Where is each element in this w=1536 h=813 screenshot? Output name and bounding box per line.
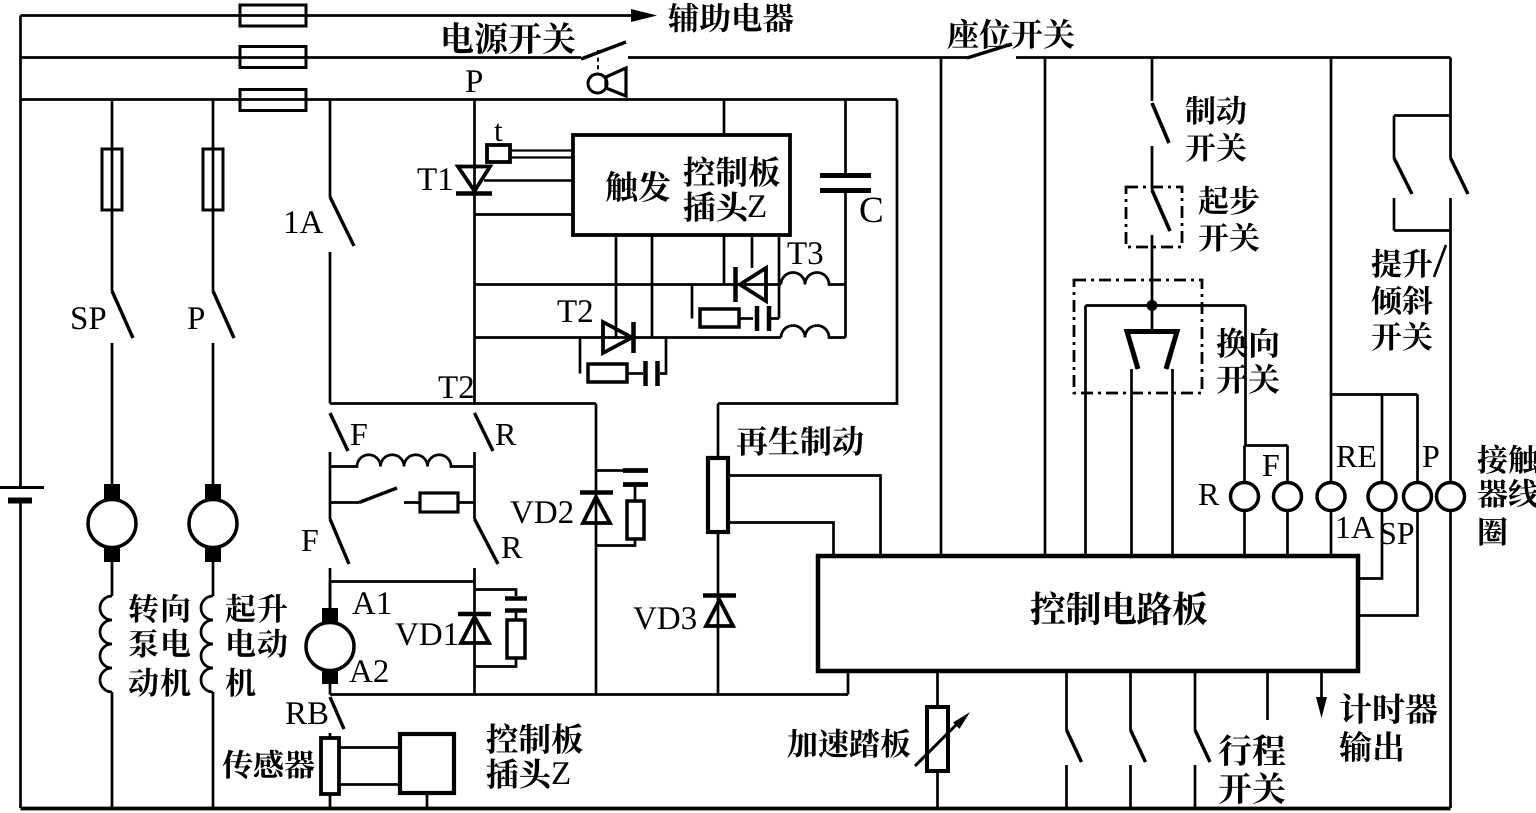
switch: travel switch 2 <box>1129 671 1132 808</box>
terminal: hoist motor bottom brush <box>206 548 220 561</box>
wire direction bus (y=305) <box>1086 306 1246 557</box>
label RE (coil) <box>1337 446 1375 467</box>
label 制动开关 (brake switch) <box>1186 96 1246 125</box>
label F (coil) <box>1263 455 1279 476</box>
label 传感器 (sensor) <box>223 750 315 779</box>
wire bus 3 (main positive rail, y=99) <box>21 98 898 101</box>
label 插头Z (plug Z) <box>684 191 747 222</box>
label F (upper) <box>351 424 367 445</box>
wire direction outputs <box>1132 369 1173 556</box>
label 1A <box>286 211 323 233</box>
thyristor T1 triangle <box>458 167 490 192</box>
contactor coil RE <box>1317 483 1345 511</box>
wire bus 1 (auxiliary feed, y=15) <box>21 14 633 17</box>
motor M2 hoist motor <box>189 500 237 548</box>
contactor coil R <box>1231 483 1259 511</box>
wire right frame (x=1450) <box>1449 58 1452 809</box>
wire P column (x=213) <box>212 100 215 809</box>
inductor commutation choke lower <box>781 326 846 338</box>
wire coil 1A to board edge <box>1358 511 1382 579</box>
snubber T2: left bracket <box>579 338 582 374</box>
switch SP contact arm <box>112 291 133 338</box>
label 1A (coil) <box>1338 517 1374 538</box>
wire seat feed 1 (x=941) <box>940 58 943 557</box>
snubber T2: resistor <box>588 364 627 382</box>
fuse FU4 on SP column <box>102 149 122 210</box>
wire T1 column (x=474, from bus3) <box>473 100 476 404</box>
arrow of potentiometer <box>915 724 957 766</box>
label T2 (left node) <box>439 376 473 398</box>
diode VD3 cathode bar <box>703 593 736 598</box>
switch RB contact arm <box>330 697 344 729</box>
fuse FU3 on bus 3 <box>240 90 306 111</box>
horn bell symbol <box>606 68 626 96</box>
contactor coil SP <box>1404 483 1432 511</box>
wire trigger board outputs <box>616 235 779 338</box>
label C <box>861 197 882 222</box>
label 计时器输出 (timer output) <box>1340 693 1437 724</box>
capacitor plates of VD1 snubber <box>505 599 527 611</box>
wire VD1 column (x=474) <box>473 582 476 695</box>
label T1 <box>418 168 452 190</box>
switch: brake switch arm <box>1152 103 1169 143</box>
control circuit board box <box>818 556 1358 671</box>
label VD3 <box>633 607 696 629</box>
terminal: hoist motor top brush <box>206 485 220 498</box>
switch: start switch arm <box>1152 190 1170 231</box>
wire bus3 corner down (x=897) <box>718 100 897 404</box>
label P (coil) <box>1423 446 1439 467</box>
label 接触器线圈 (contactor coils) <box>1478 445 1536 474</box>
wire left frame (battery column) <box>19 16 22 809</box>
diode VD1 triangle <box>461 617 489 643</box>
wire bridge top rail (y=403) <box>330 402 596 405</box>
label 控制电路板 (control circuit board) <box>1031 591 1208 625</box>
start switch dash-dot box <box>1126 187 1182 247</box>
wire link to trigger board (y=214) <box>475 213 574 216</box>
motor M1 steering pump motor <box>88 500 136 548</box>
thermal sensor t box <box>487 145 510 162</box>
resistor in bypass row <box>420 493 458 512</box>
label VD2 <box>510 501 572 523</box>
switch 1A contact arm <box>330 197 354 246</box>
inductor T3 commutation choke upper <box>781 273 846 285</box>
switch R lower contact arm <box>475 519 499 564</box>
wire capacitor C column (x=845) <box>844 100 847 338</box>
label 加速踏板 (accelerator pedal) <box>787 729 910 758</box>
label 再生制动 (regenerative braking) <box>737 426 863 456</box>
label 控制板 (control board) <box>684 156 780 187</box>
label SP (pump contactor) <box>72 307 105 329</box>
resistor RB regen braking <box>708 458 728 532</box>
terminal: armature A1 brush <box>323 609 337 622</box>
label R (coil) <box>1199 484 1219 505</box>
field coil of hoist motor <box>201 596 213 692</box>
label 控制板插头Z (control board plug Z, lower) <box>487 723 583 754</box>
switch: bypass contact arm <box>359 488 397 503</box>
label 换向开关 (direction switch) <box>1217 327 1279 357</box>
label 触发 (trigger) <box>606 171 670 202</box>
wire accelerator column <box>936 671 939 808</box>
field coil of pump motor <box>100 596 112 692</box>
contactor coil F <box>1274 483 1302 511</box>
label R (upper) <box>496 424 516 445</box>
switch: seat switch arm <box>967 44 1012 58</box>
label T2 (upper) <box>558 300 592 322</box>
wire sensor box to frame <box>426 793 429 808</box>
wire brake switch column (x=1152) <box>1151 58 1154 331</box>
thyristor T2 triangle <box>603 322 632 353</box>
diode VD2 cathode bar <box>580 490 613 495</box>
wire sensor links <box>339 748 400 785</box>
potentiometer accelerator pedal <box>927 707 948 771</box>
wire armature top rail (y=581) <box>330 580 475 583</box>
label 转向泵电动机 (steering pump motor) <box>129 594 190 623</box>
diode VD1 cathode bar <box>458 612 491 617</box>
wire VD1 snubber bottom bracket <box>475 658 517 667</box>
switch: power switch arm <box>581 42 626 59</box>
fuse FU1 on bus 1 <box>240 5 306 26</box>
thyristor T2 cathode bar <box>631 322 636 353</box>
wire commutation row 1 (y=284) <box>475 283 782 286</box>
label t (thermal sensor) <box>494 124 502 142</box>
snubber VD2: resistor <box>627 501 644 539</box>
label 辅助电器 (auxiliary devices) <box>668 3 793 33</box>
inductor: armature choke <box>330 455 475 467</box>
switch P contact arm <box>213 291 234 338</box>
wire RE/coil feed column (x=1331) <box>1330 58 1333 483</box>
wire coil SP to board edge <box>1358 511 1418 616</box>
capacitor C plates <box>820 176 871 191</box>
contactor coil P2 <box>1437 483 1465 511</box>
wire seat feed 2 (x=1045) <box>1044 58 1047 557</box>
label 座位开关 (seat switch) <box>948 19 1074 49</box>
trigger board box 触发/控制板插头Z <box>573 135 790 235</box>
wire F branch vertical <box>329 452 332 609</box>
label 提升/倾斜开关 (lift/tilt switch) <box>1372 249 1433 278</box>
switch F lower contact arm <box>330 519 349 564</box>
switch: tilt switch arm <box>1451 158 1469 194</box>
sensor box <box>400 734 454 793</box>
label F (lower) <box>302 530 318 551</box>
sensor shunt resistor <box>321 738 339 794</box>
label SP (coil) <box>1381 523 1413 544</box>
label VD1 <box>395 623 457 645</box>
resistor of VD1 snubber <box>507 620 525 658</box>
label 起升电动机 (hoist motor) <box>226 594 288 623</box>
direction switch dash-dot box <box>1074 280 1202 393</box>
dashed link of power switch to horn <box>597 50 599 73</box>
diode VD3 triangle <box>706 600 733 626</box>
terminal: pump motor bottom brush <box>105 548 119 561</box>
motor M3 traction armature <box>306 623 354 671</box>
wire R-F coil bracket <box>1245 446 1288 483</box>
switch R upper contact arm <box>475 413 494 451</box>
wire VD1 snubber top bracket <box>475 590 517 597</box>
battery GB short plate <box>8 498 32 504</box>
label P (top rail) <box>466 70 482 92</box>
switch: lift switch arm <box>1394 158 1412 194</box>
terminal: pump motor top brush <box>105 485 119 498</box>
contactor coil 1A <box>1368 483 1396 511</box>
wire double link t to board <box>510 151 573 158</box>
wire T1 gate to trigger board <box>484 179 573 181</box>
thyristor T1 cathode bar <box>456 191 492 196</box>
wire VD2 column (x=596) <box>595 404 598 695</box>
snubber VD2: top bracket and capacitor <box>596 469 635 472</box>
wire regen tap upper <box>728 476 881 557</box>
wire R branch vertical (x=474) <box>473 452 476 582</box>
wire bottom rail (y=694) <box>330 671 848 695</box>
wire bus 2 (key-switch line, y=57) <box>21 56 1451 59</box>
wire regen tap lower <box>728 523 834 557</box>
snubber VD2: bottom bracket <box>596 539 635 546</box>
wire coil bracket (y=394) <box>1331 395 1418 483</box>
thyristor T3 cathode bar <box>733 267 738 302</box>
snubber T3: left bracket <box>691 285 694 319</box>
wire SP column (x=112) <box>111 100 114 809</box>
switch: travel switch 3 <box>1194 671 1197 808</box>
wire VD1 snubber mid stub <box>515 612 518 620</box>
label R (lower) <box>502 537 522 558</box>
wire RB to sensor <box>329 733 332 808</box>
snubber T3: resistor <box>700 309 739 327</box>
label A1 terminal <box>352 592 390 614</box>
snubber T2: link and capacitor <box>627 372 643 375</box>
arrowhead to auxiliary devices <box>631 9 657 22</box>
label 行程开关 (travel switch) <box>1219 734 1286 766</box>
switch: travel switch 1 <box>1065 671 1068 808</box>
wire bypass row (y=502) <box>330 501 475 504</box>
terminal: armature A2 brush <box>323 670 337 683</box>
battery GB long plate <box>0 486 44 489</box>
label T3 <box>788 242 823 264</box>
switch: direction selector wiper <box>1127 332 1177 370</box>
wire regen column (x=718) <box>717 404 720 695</box>
wire armature stub <box>329 582 332 695</box>
label A2 terminal <box>349 660 387 682</box>
wire 1A column (x=330) <box>329 100 332 404</box>
label 电源开关 (power switch) <box>444 22 575 54</box>
fuse FU2 on bus 2 <box>240 47 306 68</box>
diode VD2 triangle <box>583 497 610 523</box>
wire timer output with arrow <box>1320 671 1323 699</box>
label RB <box>286 702 327 724</box>
label P (hoist contactor) <box>188 307 204 329</box>
wire coils to board <box>1245 511 1332 557</box>
fuse FU5 on P column <box>203 149 223 210</box>
thyristor T3 triangle <box>740 268 766 301</box>
wire lift/tilt branch bracket <box>1394 116 1451 231</box>
switch F upper contact arm <box>330 413 348 451</box>
snubber T3: link and capacitor <box>739 317 753 320</box>
wire bus3 to trigger board top <box>723 100 726 136</box>
label 起步开关 (start switch) <box>1199 186 1259 215</box>
wire bottom frame (negative rail) <box>21 807 1451 811</box>
node junction dot <box>1147 300 1158 311</box>
wire commutation row 2 (y=337) <box>475 336 782 339</box>
horn indicator circle <box>588 74 607 93</box>
wire output stub <box>1266 671 1269 720</box>
